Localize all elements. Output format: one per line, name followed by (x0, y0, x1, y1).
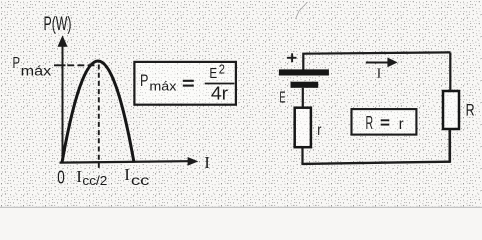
svg-text:r: r (399, 116, 404, 133)
dashed level line to peak (67, 64, 96, 66)
right wire bottom segment (448, 129, 451, 163)
svg-text:R: R (366, 113, 374, 133)
svg-text:máx: máx (21, 63, 52, 78)
svg-text:P: P (13, 55, 21, 72)
svg-text:E: E (279, 90, 285, 107)
right wire top segment (449, 52, 451, 91)
y-axis (P) (62, 44, 64, 163)
svg-text:I: I (204, 153, 210, 172)
text = (381, 119, 390, 121)
svg-text:E: E (209, 65, 217, 82)
equals sign (183, 80, 194, 82)
Pmax tick on y-axis (54, 64, 66, 66)
bottom scan edge (0, 206, 482, 208)
wire from battery + to top (303, 52, 450, 69)
current arrow I (366, 62, 389, 64)
battery E top plate (279, 69, 329, 75)
svg-text:cc: cc (131, 172, 150, 188)
load resistor R (443, 91, 459, 129)
fraction bar (205, 83, 235, 85)
dashed drop line from peak to I axis (98, 65, 100, 171)
svg-text:R: R (466, 101, 475, 120)
svg-text:r: r (317, 122, 321, 139)
battery E bottom plate (291, 82, 319, 88)
internal resistor r (295, 108, 311, 148)
svg-text:2: 2 (219, 61, 225, 76)
condition box R = r (352, 109, 417, 135)
svg-text:4r: 4r (211, 84, 228, 104)
x-axis (I) (60, 161, 189, 162)
svg-text:máx: máx (149, 78, 177, 93)
svg-text:P(W): P(W) (44, 14, 72, 35)
wire battery to internal resistor r (302, 88, 304, 108)
plus sign of battery (287, 57, 297, 59)
svg-text:I: I (377, 67, 382, 82)
svg-text:I: I (76, 167, 82, 186)
svg-text:0: 0 (57, 168, 64, 188)
power curve P(I) parabola (62, 61, 134, 163)
svg-text:I: I (124, 165, 130, 184)
scan scratch (296, 2, 308, 19)
wire r to bottom (301, 147, 303, 164)
bottom wire (301, 162, 449, 164)
svg-text:cc/2: cc/2 (82, 174, 107, 188)
svg-text:P: P (140, 71, 148, 90)
formula box Pmax = E^2/4r (134, 62, 236, 105)
